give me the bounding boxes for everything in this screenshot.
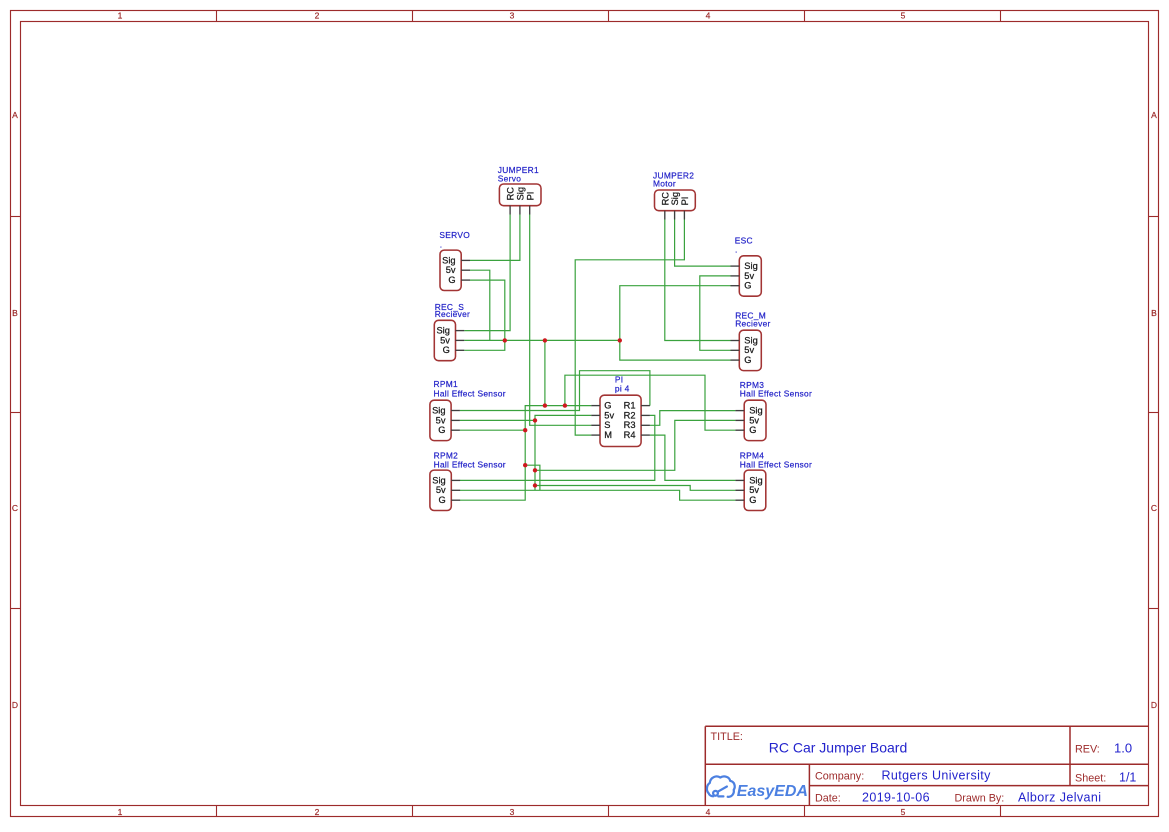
svg-text:Motor: Motor (653, 178, 676, 188)
svg-text:pi 4: pi 4 (615, 383, 630, 393)
svg-text:G: G (749, 425, 756, 435)
svg-text:G: G (438, 495, 445, 505)
svg-text:B: B (12, 308, 18, 318)
svg-text:2019-10-06: 2019-10-06 (862, 791, 930, 805)
svg-text:1: 1 (118, 11, 123, 21)
svg-text:TITLE:: TITLE: (711, 731, 743, 743)
svg-text:RC: RC (660, 192, 670, 206)
svg-text:RC Car Jumper Board: RC Car Jumper Board (769, 739, 908, 755)
svg-text:R3: R3 (624, 420, 636, 430)
svg-text:Reciever: Reciever (735, 319, 770, 329)
svg-text:5v: 5v (744, 271, 754, 281)
svg-text:5v: 5v (436, 415, 446, 425)
svg-text:5v: 5v (749, 485, 759, 495)
svg-text:M: M (604, 430, 612, 440)
svg-text:G: G (443, 345, 450, 355)
svg-text:Sig: Sig (749, 475, 762, 485)
svg-text:2: 2 (315, 807, 320, 817)
svg-text:Sig: Sig (432, 405, 445, 415)
svg-text:C: C (12, 503, 18, 513)
svg-text:Sig: Sig (432, 475, 445, 485)
svg-text:Hall Effect Sensor: Hall Effect Sensor (740, 389, 812, 399)
svg-text:R1: R1 (624, 401, 636, 411)
svg-text:PI: PI (680, 197, 690, 206)
svg-text:Sig: Sig (744, 335, 757, 345)
svg-text:A: A (12, 110, 18, 120)
svg-text:B: B (1151, 308, 1157, 318)
svg-text:Sig: Sig (442, 255, 455, 265)
svg-text:G: G (448, 275, 455, 285)
svg-text:Reciever: Reciever (435, 309, 470, 319)
svg-text:C: C (1151, 503, 1157, 513)
svg-text:Alborz Jelvani: Alborz Jelvani (1018, 791, 1101, 805)
svg-text:5: 5 (901, 807, 906, 817)
svg-text:R4: R4 (624, 430, 636, 440)
svg-text:5v: 5v (604, 410, 614, 420)
svg-text:5v: 5v (744, 345, 754, 355)
svg-text:S: S (604, 420, 610, 430)
svg-text:D: D (1151, 700, 1157, 710)
svg-text:1.0: 1.0 (1114, 741, 1132, 756)
svg-text:G: G (438, 425, 445, 435)
svg-text:5: 5 (901, 11, 906, 21)
svg-text:Sig: Sig (670, 192, 680, 205)
svg-text:D: D (12, 700, 18, 710)
svg-text:Rutgers University: Rutgers University (882, 769, 992, 783)
svg-text:2: 2 (315, 11, 320, 21)
svg-text:Sig: Sig (749, 406, 762, 416)
svg-text:Sig: Sig (516, 187, 526, 200)
svg-text:1/1: 1/1 (1119, 771, 1136, 785)
svg-text:G: G (749, 495, 756, 505)
svg-text:.: . (735, 245, 738, 255)
svg-text:Date:: Date: (815, 792, 841, 804)
svg-text:Company:: Company: (815, 770, 864, 782)
svg-text:5v: 5v (749, 415, 759, 425)
svg-text:Servo: Servo (498, 174, 521, 184)
svg-text:Hall Effect Sensor: Hall Effect Sensor (434, 388, 506, 398)
svg-text:Sig: Sig (744, 261, 757, 271)
svg-text:R2: R2 (624, 410, 636, 420)
svg-text:SERVO: SERVO (439, 230, 470, 240)
svg-text:3: 3 (510, 11, 515, 21)
svg-text:Hall Effect Sensor: Hall Effect Sensor (740, 460, 812, 470)
svg-text:REV:: REV: (1075, 744, 1100, 756)
svg-text:5v: 5v (440, 335, 450, 345)
svg-text:4: 4 (706, 807, 711, 817)
svg-text:4: 4 (706, 11, 711, 21)
svg-text:Sig: Sig (436, 326, 449, 336)
svg-text:PI: PI (525, 192, 535, 201)
svg-text:Sheet:: Sheet: (1075, 772, 1106, 784)
svg-text:1: 1 (118, 807, 123, 817)
svg-text:G: G (744, 281, 751, 291)
svg-text:EasyEDA: EasyEDA (737, 783, 808, 800)
svg-text:.: . (440, 239, 443, 249)
svg-text:RC: RC (506, 187, 516, 201)
svg-text:Hall Effect Sensor: Hall Effect Sensor (434, 459, 506, 469)
svg-text:5v: 5v (436, 485, 446, 495)
svg-text:A: A (1151, 110, 1157, 120)
svg-text:Drawn By:: Drawn By: (955, 792, 1005, 804)
svg-text:G: G (604, 401, 611, 411)
svg-text:5v: 5v (446, 265, 456, 275)
svg-text:G: G (744, 355, 751, 365)
svg-text:3: 3 (510, 807, 515, 817)
